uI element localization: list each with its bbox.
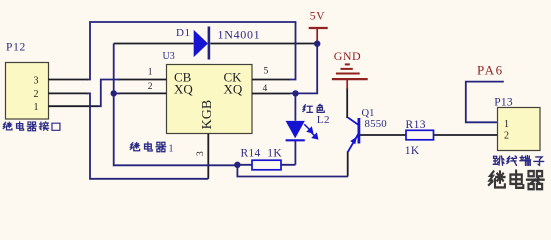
svg-text:1: 1 [169,144,174,155]
svg-text:2: 2 [148,82,153,92]
svg-text:2: 2 [504,131,509,142]
svg-text:GND: GND [334,49,362,63]
svg-text:1K: 1K [267,148,282,160]
svg-text:1: 1 [34,102,39,113]
svg-text:1K: 1K [405,145,420,157]
svg-text:8550: 8550 [365,118,387,130]
svg-text:3: 3 [196,151,206,156]
svg-text:P12: P12 [6,42,26,54]
svg-text:U3: U3 [163,51,175,62]
svg-text:5: 5 [264,66,269,76]
svg-text:P13: P13 [494,97,513,109]
svg-text:1N4001: 1N4001 [218,28,261,42]
svg-text:R13: R13 [406,119,426,131]
svg-text:5V: 5V [310,11,326,23]
svg-text:L2: L2 [317,114,330,126]
svg-text:1: 1 [148,68,153,78]
svg-text:XQ: XQ [174,82,193,97]
svg-text:4: 4 [263,84,268,94]
svg-text:1: 1 [504,119,509,130]
svg-text:XQ: XQ [224,82,243,97]
svg-text:R14: R14 [241,148,261,160]
svg-text:3: 3 [34,75,39,86]
svg-text:PA6: PA6 [477,63,504,78]
svg-text:2: 2 [34,89,39,100]
svg-text:D1: D1 [176,27,191,39]
svg-text:KGB: KGB [200,100,215,130]
